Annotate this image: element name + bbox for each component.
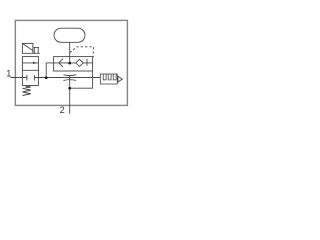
svg-text:1: 1 — [6, 69, 11, 79]
svg-text:2: 2 — [60, 105, 65, 115]
